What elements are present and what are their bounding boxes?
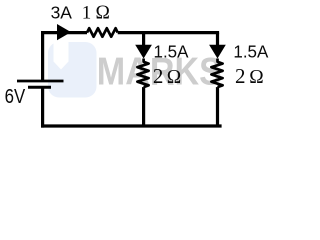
resistor R1 1 ohm zigzag	[87, 28, 118, 37]
svg-text:2: 2	[235, 64, 246, 88]
svg-text:6V: 6V	[5, 84, 26, 107]
current arrow 1.5A branch 2	[209, 45, 226, 59]
watermark logo	[48, 42, 97, 98]
wire bottom horizontal	[41, 124, 222, 127]
wire branch 1 lower	[142, 87, 145, 126]
wire top horizontal left segment	[41, 31, 87, 34]
svg-text:2: 2	[153, 64, 164, 88]
wire top horizontal right segment	[118, 31, 219, 34]
svg-text:Ω: Ω	[96, 1, 110, 23]
current arrow 3A	[57, 24, 71, 40]
battery V1 long plate	[17, 80, 64, 83]
svg-text:1: 1	[82, 3, 92, 24]
battery V1 short plate	[28, 86, 51, 89]
svg-text:1.5A: 1.5A	[233, 41, 268, 61]
svg-text:Ω: Ω	[167, 66, 181, 88]
resistor R2 2 ohm zigzag branch 1	[137, 59, 148, 88]
wire top left vertical (left branch upper)	[41, 33, 44, 80]
current arrow 1.5A branch 1	[135, 45, 152, 59]
wire left vertical lower	[41, 87, 44, 127]
svg-text:3A: 3A	[51, 2, 73, 22]
resistor R3 2 ohm zigzag branch 2	[211, 59, 222, 88]
svg-text:Ω: Ω	[249, 66, 263, 88]
wire branch 2 lower	[216, 87, 219, 126]
wire branch 2 upper	[216, 33, 219, 46]
wire branch 1 upper	[142, 33, 145, 46]
svg-text:1.5A: 1.5A	[154, 41, 189, 61]
